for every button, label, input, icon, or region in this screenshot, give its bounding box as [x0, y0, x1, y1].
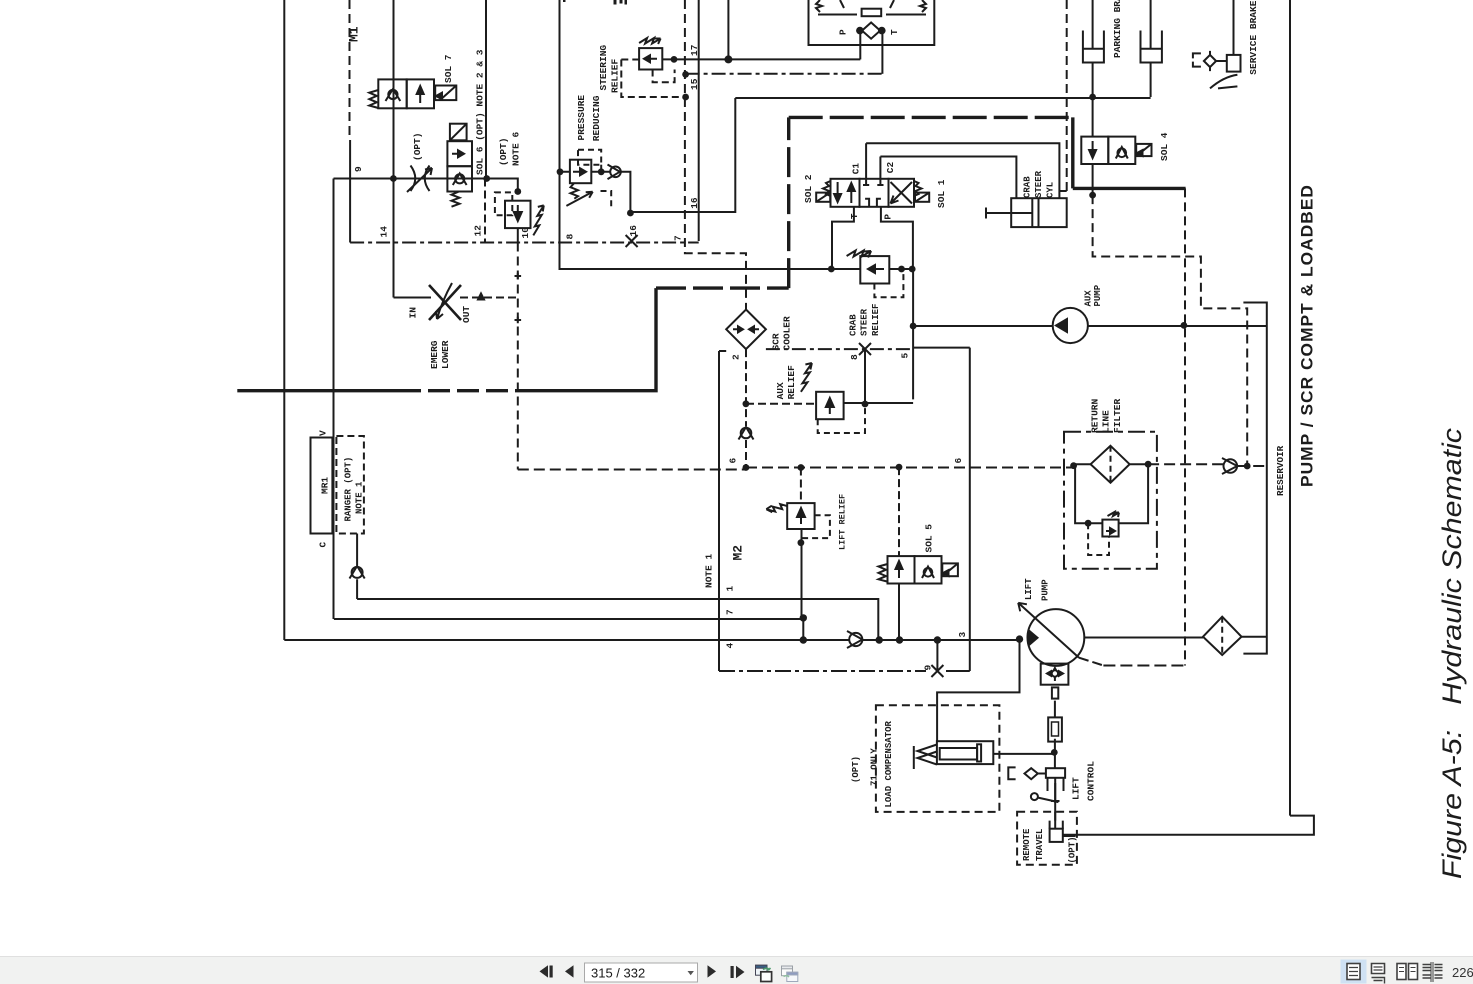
- wire SOL5 drain: [898, 584, 900, 641]
- heat exchanger SCR cooler: [726, 310, 766, 350]
- valve steering relief: [621, 38, 685, 97]
- wire remote travel output: [1063, 835, 1076, 837]
- svg-text:7: 7: [673, 235, 684, 241]
- svg-text:RELIEF: RELIEF: [786, 365, 797, 400]
- svg-text:TRAVEL: TRAVEL: [1035, 829, 1045, 861]
- check valve MR1 leg: [350, 566, 365, 579]
- svg-text:9: 9: [923, 665, 934, 671]
- svg-text:AUX: AUX: [1084, 290, 1094, 307]
- wire steering supply vertical: [560, 0, 832, 269]
- wire port 9 stub: [936, 640, 938, 671]
- node M2 boundary top: [719, 350, 726, 352]
- last page button: [731, 966, 745, 978]
- wire aux relief pilot feed dashed: [746, 403, 816, 405]
- wire 16 port link: [632, 98, 736, 212]
- wire line from node 9 to MR1: [333, 179, 335, 620]
- next view button disabled: [782, 966, 798, 982]
- svg-text:SCR: SCR: [771, 333, 782, 350]
- svg-text:CYL: CYL: [1046, 182, 1056, 198]
- svg-text:CRAB: CRAB: [1023, 176, 1033, 198]
- svg-text:T: T: [889, 29, 900, 35]
- pump lift variable: [1018, 603, 1103, 742]
- svg-text:3: 3: [957, 632, 968, 638]
- valve SOL6: [447, 124, 472, 207]
- wire steering valve T port: [881, 31, 883, 74]
- svg-text:1: 1: [724, 586, 735, 592]
- filter suction: [1203, 617, 1242, 655]
- svg-text:T: T: [849, 213, 860, 219]
- svg-text:SOL 6 (OPT) NOTE 2 & 3: SOL 6 (OPT) NOTE 2 & 3: [475, 49, 486, 175]
- wire aux relief output: [844, 402, 914, 404]
- wire emerg lower OUT dashed: [460, 297, 518, 299]
- svg-text:M1: M1: [347, 26, 362, 42]
- wire steering relief output: [662, 58, 860, 60]
- svg-text:OUT: OUT: [461, 306, 472, 323]
- two column view button: [1423, 962, 1443, 982]
- wire emerg dashed vertical: [517, 243, 519, 470]
- wire SOL6 aux branch dashed: [484, 179, 486, 243]
- wire service brake stem: [1233, 0, 1235, 55]
- two page view button: [1397, 964, 1418, 980]
- svg-text:8: 8: [849, 354, 860, 360]
- wire node 5 riser: [912, 269, 914, 399]
- svg-text:COOLER: COOLER: [782, 316, 793, 351]
- next page button: [708, 965, 717, 977]
- svg-text:C: C: [318, 542, 329, 548]
- node M2 bottom boundary: [719, 670, 926, 672]
- svg-text:SOL 5: SOL 5: [924, 524, 935, 553]
- wire load sense dash to pump: [1103, 665, 1185, 667]
- svg-text:EMERG: EMERG: [429, 340, 440, 369]
- valve crab steer relief: [847, 251, 904, 298]
- node line 7: [334, 618, 803, 620]
- svg-text:P: P: [883, 214, 894, 220]
- valve SOL4: [1081, 137, 1151, 164]
- svg-text:MR1: MR1: [320, 477, 331, 494]
- first page button: [540, 965, 553, 977]
- wire crab valve T drop: [832, 207, 854, 269]
- wire parking cup stems: [1093, 0, 1151, 97]
- svg-text:IN: IN: [408, 307, 419, 319]
- wire component 10 tail: [517, 228, 519, 242]
- cylinder parking brake 2: [1141, 31, 1162, 63]
- svg-text:RESERVOIR: RESERVOIR: [1275, 445, 1286, 496]
- svg-text:STEER: STEER: [1034, 170, 1044, 198]
- wire SOL5 feed dashed: [898, 467, 900, 556]
- wire M1 boundary dashed top: [349, 0, 351, 140]
- node M2 right boundary: [913, 348, 970, 671]
- wire pilot dashed vertical x685: [685, 0, 746, 310]
- svg-text:SOL 1: SOL 1: [936, 179, 947, 208]
- wire right long vertical: [1289, 0, 1291, 816]
- svg-text:V: V: [318, 430, 329, 436]
- previous page button: [565, 965, 574, 977]
- svg-text:SOL 2: SOL 2: [803, 174, 814, 203]
- node 9 line: [334, 179, 518, 192]
- wire T return dash-dot: [686, 73, 883, 75]
- svg-text:RELIEF: RELIEF: [610, 58, 621, 93]
- svg-text:STEERING: STEERING: [598, 45, 609, 91]
- cut text fragment top edge: [614, 0, 617, 5]
- svg-text:(OPT): (OPT): [412, 132, 423, 161]
- wire crab valve C1 line: [866, 143, 1059, 198]
- svg-text:6: 6: [727, 458, 738, 464]
- svg-text:SOL 7: SOL 7: [443, 54, 454, 83]
- wire compensator feed: [937, 639, 1019, 742]
- svg-text:SERVICE BRAKE: SERVICE BRAKE: [1248, 0, 1259, 74]
- svg-text:6: 6: [953, 458, 964, 464]
- wire remote travel long line: [1063, 816, 1314, 835]
- svg-text:LIFT RELIEF: LIFT RELIEF: [838, 494, 848, 550]
- wire emerg lower IN line: [394, 297, 432, 299]
- wire lift relief to line4: [802, 618, 804, 640]
- valve lift control: [1008, 767, 1065, 802]
- svg-text:AUX: AUX: [775, 382, 786, 399]
- node M2 left boundary: [718, 351, 720, 671]
- svg-text:PARKING BRAKE: PARKING BRAKE: [1112, 0, 1123, 58]
- cylinder MR1: [311, 438, 333, 534]
- svg-text:RETURN: RETURN: [1090, 398, 1101, 433]
- filter return line assembly: [1064, 432, 1157, 569]
- valve steering control (top cut): [809, 0, 935, 45]
- valve crab steer SOL1 SOL2: [816, 143, 929, 207]
- wire MR1 check leg: [356, 534, 358, 600]
- valve flow control (OPT): [407, 166, 432, 193]
- svg-text:14: 14: [379, 226, 390, 238]
- wire crab relief line: [831, 268, 913, 270]
- svg-text:12: 12: [473, 225, 484, 237]
- svg-text:2: 2: [730, 354, 741, 360]
- svg-text:4: 4: [724, 643, 735, 649]
- box remote travel: [1017, 812, 1077, 865]
- cylinder parking brake 1: [1083, 31, 1104, 63]
- svg-text:16: 16: [689, 197, 700, 209]
- wire pressure reducing feed: [560, 172, 631, 212]
- single page view button active: [1341, 960, 1367, 984]
- valve pressure reducing: [566, 150, 620, 208]
- wire lift control stem: [1054, 783, 1056, 821]
- node 8 dashed line: [766, 348, 913, 350]
- svg-text:71 ONLY: 71 ONLY: [870, 748, 880, 786]
- wire steering valve P port: [859, 31, 861, 60]
- wire crab valve C2 line: [880, 157, 1016, 199]
- svg-text:226%: 226%: [1452, 965, 1473, 980]
- svg-text:REMOTE: REMOTE: [1022, 828, 1032, 861]
- node 6 return line dashed: [518, 464, 1267, 469]
- wire lift relief drain: [801, 529, 803, 619]
- svg-text:C1: C1: [851, 163, 862, 175]
- svg-text:Figure A-5: Hydraulic Schema: Figure A-5: Hydraulic Schematic: [1437, 428, 1467, 879]
- wire pump outlet line: [1084, 636, 1267, 639]
- wire cooler down leg dashed: [745, 349, 747, 467]
- check valve reservoir return: [1222, 458, 1237, 474]
- svg-text:REDUCING: REDUCING: [591, 95, 602, 141]
- svg-text:17: 17: [689, 44, 700, 56]
- wire compensator output: [993, 753, 1054, 755]
- wire SOL7 vertical line: [393, 0, 395, 298]
- svg-text:NOTE 6: NOTE 6: [511, 131, 522, 166]
- wire aux pump line: [913, 325, 1267, 327]
- wire SOL4 boundary dashed vertical: [1066, 0, 1068, 191]
- svg-text:15: 15: [689, 78, 700, 90]
- wire SOL4 drop: [1092, 97, 1094, 195]
- svg-text:FILTER: FILTER: [1112, 398, 1123, 433]
- svg-text:LOAD COMPENSATOR: LOAD COMPENSATOR: [884, 720, 894, 807]
- svg-text:LINE: LINE: [1101, 410, 1112, 433]
- valve emergency lower needle: [429, 273, 521, 324]
- wire pump control drop: [1054, 701, 1056, 768]
- node 14 line dash-dot: [350, 242, 699, 244]
- brake pedal service: [1193, 51, 1241, 89]
- wire port 14 riser: [349, 140, 351, 243]
- wire lift relief feed dashed: [800, 468, 802, 504]
- check valve line 4: [847, 631, 862, 648]
- previous view button: [756, 965, 772, 981]
- node line 1: [357, 599, 878, 640]
- svg-text:PUMP: PUMP: [1093, 284, 1103, 306]
- continuous view button: [1372, 964, 1385, 984]
- svg-text:CRAB: CRAB: [849, 314, 859, 336]
- wire heavy supply path: [237, 117, 1185, 390]
- svg-text:RELIEF: RELIEF: [871, 304, 881, 336]
- wire steering P supply vertical: [727, 0, 729, 59]
- svg-text:LOWER: LOWER: [440, 340, 451, 369]
- svg-text:PUMP / SCR COMPT & LOADBED: PUMP / SCR COMPT & LOADBED: [1298, 184, 1317, 487]
- wire SOL4 dashed return: [1093, 195, 1248, 466]
- node line 4: [284, 639, 1019, 641]
- wire load sense dashed vertical: [1184, 188, 1186, 665]
- wire crab valve P drop: [881, 207, 913, 269]
- cylinder load compensator: [876, 705, 1000, 812]
- svg-text:C2: C2: [885, 161, 896, 173]
- svg-text:10: 10: [520, 227, 531, 239]
- box RANGER OPT dashed: [336, 436, 364, 534]
- svg-text:P: P: [838, 29, 849, 35]
- valve lift relief: [766, 503, 830, 538]
- svg-text:PRESSURE: PRESSURE: [576, 95, 587, 141]
- svg-text:NOTE 1: NOTE 1: [355, 481, 365, 514]
- svg-text:LIFT: LIFT: [1024, 578, 1034, 600]
- cylinder crab steer: [986, 198, 1067, 227]
- valve aux relief: [801, 363, 865, 433]
- svg-text:315 / 332: 315 / 332: [591, 966, 645, 981]
- wire left long vertical: [283, 0, 285, 640]
- svg-text:(OPT): (OPT): [851, 756, 861, 783]
- svg-text:9: 9: [353, 166, 364, 172]
- svg-text:(OPT): (OPT): [1068, 836, 1078, 863]
- valve component 10 relief: [495, 192, 544, 235]
- svg-text:PUMP: PUMP: [1041, 579, 1051, 601]
- page number input: [585, 963, 698, 982]
- check valve cooler branch: [739, 427, 754, 440]
- pump aux: [1053, 308, 1088, 343]
- svg-text:NOTE 1: NOTE 1: [704, 553, 715, 588]
- valve SOL7: [369, 79, 456, 108]
- svg-text:5: 5: [900, 353, 911, 359]
- svg-text:SOL 4: SOL 4: [1159, 132, 1170, 161]
- wire reservoir bracket: [1243, 303, 1266, 654]
- valve SOL5: [879, 556, 958, 583]
- svg-text:7: 7: [724, 609, 735, 615]
- svg-text:16: 16: [628, 225, 639, 237]
- svg-text:RANGER (OPT): RANGER (OPT): [344, 457, 354, 522]
- wire SOL6 supply vertical: [485, 0, 487, 179]
- svg-text:STEER: STEER: [860, 308, 870, 336]
- wire parking brake line: [735, 97, 1150, 99]
- svg-text:8: 8: [565, 234, 576, 240]
- svg-text:LIFT: LIFT: [1071, 777, 1082, 800]
- svg-text:CONTROL: CONTROL: [1086, 761, 1097, 801]
- wire port 16 vertical: [698, 0, 700, 241]
- X plug marks: [626, 235, 944, 677]
- wire aux relief riser: [864, 349, 866, 404]
- svg-text:(OPT): (OPT): [498, 137, 509, 166]
- svg-text:M2: M2: [731, 545, 746, 561]
